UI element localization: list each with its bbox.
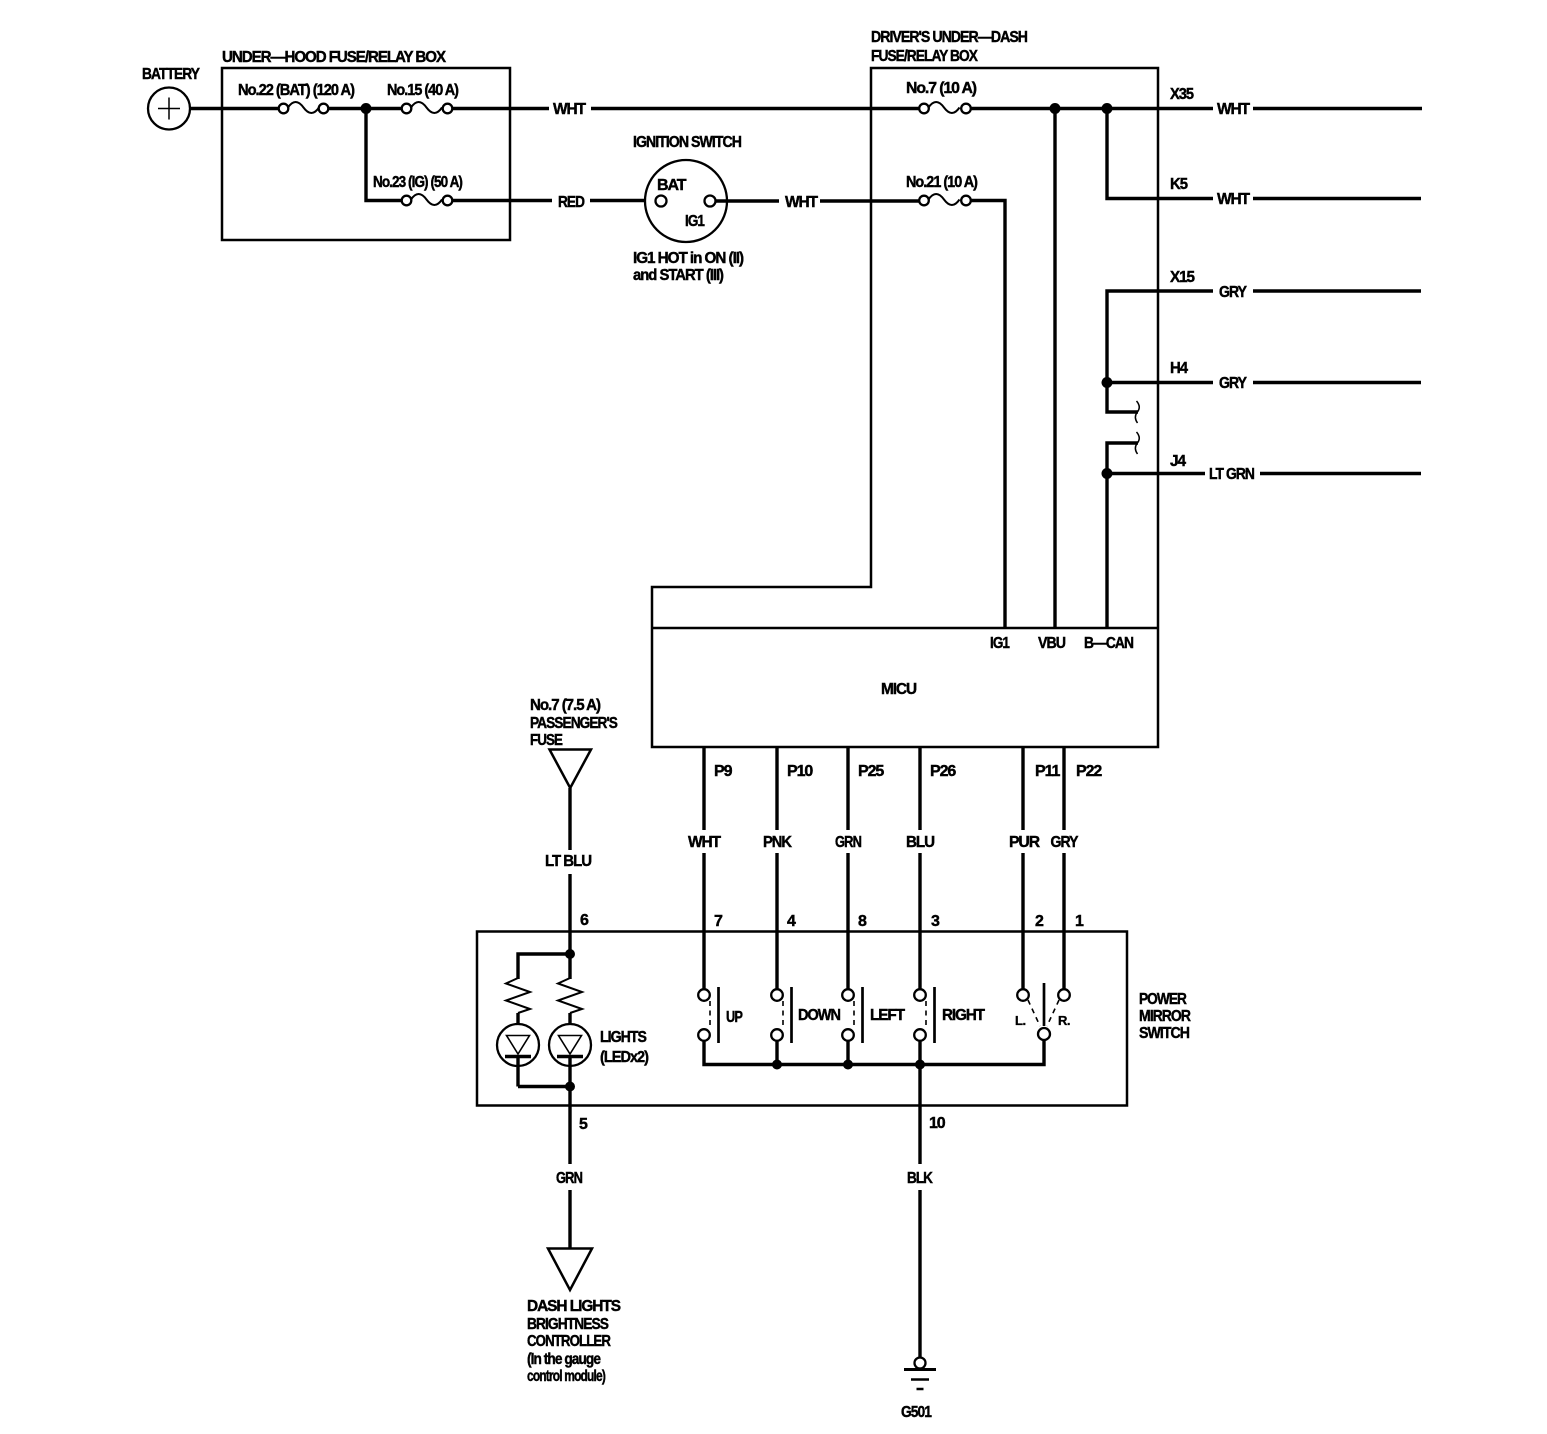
wire K5 branch (WHT) — [1107, 109, 1421, 209]
wire pin 5 to dash lights controller (GRN) — [556, 1087, 588, 1249]
svg-text:WHT: WHT — [785, 194, 818, 211]
junction node bus/LEFT — [843, 1060, 853, 1070]
svg-text:10: 10 — [929, 1115, 946, 1132]
svg-text:LT BLU: LT BLU — [545, 853, 592, 870]
junction node J4 — [1102, 468, 1113, 479]
resistor left — [506, 978, 530, 1013]
svg-text:control module): control module) — [527, 1368, 606, 1385]
svg-text:RED: RED — [558, 194, 584, 211]
svg-text:WHT: WHT — [1217, 191, 1250, 208]
junction node bus/RIGHT — [915, 1060, 925, 1070]
svg-text:IG1: IG1 — [990, 635, 1010, 652]
svg-text:No.22 (BAT) (120 A): No.22 (BAT) (120 A) — [238, 82, 355, 99]
svg-text:PNK: PNK — [763, 834, 792, 851]
svg-text:LIGHTS: LIGHTS — [600, 1029, 647, 1046]
wire DOWN bottom to bus — [775, 1041, 778, 1065]
pin 4 wire — [777, 913, 796, 989]
wire fuse21 to MICU IG1 — [971, 201, 1006, 629]
svg-text:4: 4 — [787, 913, 796, 930]
in-line connector stub lower — [1107, 432, 1139, 474]
wire J4 branch (LT GRN) — [1107, 453, 1421, 483]
switch UP — [698, 987, 743, 1043]
svg-text:WHT: WHT — [688, 834, 721, 851]
svg-text:WHT: WHT — [1217, 101, 1250, 118]
dash lights brightness controller arrow — [527, 1249, 621, 1386]
power mirror switch box — [477, 932, 1191, 1106]
MICU pin P22 wire (GRY) — [1051, 747, 1103, 931]
fuse No.21 (10 A) — [906, 174, 978, 205]
svg-text:IG1: IG1 — [685, 213, 705, 230]
MICU pin P9 wire (WHT) — [688, 747, 733, 931]
svg-text:(In the gauge: (In the gauge — [527, 1351, 601, 1368]
svg-text:J4: J4 — [1170, 453, 1186, 470]
svg-text:PASSENGER'S: PASSENGER'S — [530, 715, 618, 732]
switch DOWN — [771, 987, 840, 1043]
svg-text:UNDER—HOOD FUSE/RELAY BOX: UNDER—HOOD FUSE/RELAY BOX — [222, 49, 446, 66]
fuse No.15 (40 A) — [387, 82, 459, 113]
fuse No.7 (10 A) — [906, 80, 977, 113]
svg-text:LT GRN: LT GRN — [1209, 466, 1254, 483]
LED right — [549, 1013, 591, 1087]
wire RIGHT bottom to bus — [918, 1041, 921, 1065]
junction node VBU tap — [1050, 103, 1061, 114]
svg-text:No.7 (10 A): No.7 (10 A) — [906, 80, 977, 97]
svg-text:H4: H4 — [1170, 360, 1188, 377]
svg-text:(LEDx2): (LEDx2) — [600, 1049, 649, 1066]
svg-text:GRY: GRY — [1219, 284, 1247, 301]
MICU pin P26 wire (BLU) — [906, 747, 956, 931]
svg-text:RIGHT: RIGHT — [942, 1007, 985, 1024]
svg-text:1: 1 — [1075, 913, 1084, 930]
svg-text:DOWN: DOWN — [798, 1007, 840, 1024]
wire LEFT bottom to bus — [846, 1041, 849, 1065]
wire battery to under-hood box — [190, 107, 280, 110]
svg-text:R.: R. — [1058, 1013, 1070, 1028]
wire LED bottoms to node 5 — [518, 1085, 570, 1088]
svg-text:PUR: PUR — [1009, 834, 1041, 851]
in-line connector stub upper — [1107, 383, 1139, 424]
svg-text:6: 6 — [580, 912, 589, 929]
svg-text:WHT: WHT — [553, 101, 586, 118]
wire B-CAN down to MICU — [1105, 474, 1108, 629]
svg-text:POWER: POWER — [1139, 991, 1187, 1008]
wire fuse22 to junction — [328, 107, 366, 110]
svg-text:FUSE/RELAY BOX: FUSE/RELAY BOX — [871, 48, 978, 65]
wire passenger fuse to switch pin 6 (LT BLU) — [545, 788, 592, 931]
svg-text:GRN: GRN — [556, 1170, 582, 1187]
pin 8 wire — [848, 913, 867, 989]
svg-text:G501: G501 — [901, 1404, 932, 1421]
MICU — [652, 628, 1158, 698]
svg-text:DRIVER'S UNDER—DASH: DRIVER'S UNDER—DASH — [871, 29, 1027, 46]
svg-text:No.15 (40 A): No.15 (40 A) — [387, 82, 459, 99]
MICU pin P10 wire (PNK) — [763, 747, 813, 931]
pin 7 wire — [704, 913, 723, 989]
svg-text:No.23 (IG) (50 A): No.23 (IG) (50 A) — [373, 174, 463, 191]
battery — [142, 66, 200, 130]
svg-text:P11: P11 — [1035, 763, 1060, 780]
junction node above pin 5 — [565, 1082, 575, 1092]
ground G501 — [901, 1358, 936, 1422]
wire pin 10 to ground (BLK) — [907, 1065, 946, 1358]
wire H4 branch (GRY) — [1107, 360, 1421, 392]
svg-text:DASH LIGHTS: DASH LIGHTS — [527, 1298, 621, 1315]
svg-text:GRY: GRY — [1051, 834, 1079, 851]
svg-text:FUSE: FUSE — [530, 732, 563, 749]
fuse No.22 (BAT) (120 A) — [238, 82, 355, 113]
svg-text:LEFT: LEFT — [870, 1007, 905, 1024]
svg-text:P10: P10 — [787, 763, 813, 780]
svg-text:X15: X15 — [1170, 269, 1195, 286]
ignition switch — [633, 134, 744, 284]
svg-text:No.21 (10 A): No.21 (10 A) — [906, 174, 978, 191]
wire fuse7 to X35 (WHT) — [971, 86, 1423, 118]
switch RIGHT — [914, 987, 985, 1043]
resistor right — [558, 978, 582, 1013]
switch LEFT — [842, 987, 905, 1043]
wire fuse23 to ignition switch (RED) — [452, 194, 656, 211]
wire junction down to fuse23 — [366, 109, 402, 201]
svg-text:P26: P26 — [930, 763, 956, 780]
svg-text:L.: L. — [1015, 1013, 1026, 1028]
node pin6 inside switch — [518, 931, 575, 979]
svg-text:K5: K5 — [1170, 176, 1188, 193]
svg-text:3: 3 — [931, 913, 940, 930]
svg-text:No.7 (7.5 A): No.7 (7.5 A) — [530, 697, 601, 714]
pin 3 wire — [920, 913, 940, 989]
switch L/R selector — [1015, 983, 1070, 1040]
pin 1 wire — [1064, 913, 1084, 989]
junction node H4 — [1102, 377, 1113, 388]
svg-text:7: 7 — [714, 913, 723, 930]
svg-text:SWITCH: SWITCH — [1139, 1025, 1189, 1042]
svg-text:P22: P22 — [1076, 763, 1102, 780]
svg-text:BLK: BLK — [907, 1170, 933, 1187]
fuse No.23 (IG) (50 A) — [373, 174, 463, 205]
wire fuse15 to under-dash box (WHT) — [452, 101, 920, 118]
driver's under-dash fuse/relay box — [652, 29, 1158, 747]
svg-text:X35: X35 — [1170, 86, 1194, 103]
LED left — [497, 1013, 539, 1087]
svg-text:CONTROLLER: CONTROLLER — [527, 1333, 611, 1350]
svg-text:8: 8 — [858, 913, 867, 930]
LIGHTS (LEDx2) label — [600, 1029, 649, 1066]
switch common bus wire — [704, 1040, 1044, 1065]
passenger's fuse No.7 (7.5 A) arrow — [530, 697, 618, 788]
svg-text:GRN: GRN — [835, 834, 861, 851]
wire ignition IG1 to fuse21 (WHT) — [716, 194, 920, 211]
svg-text:P25: P25 — [858, 763, 884, 780]
svg-text:IG1 HOT in ON (II): IG1 HOT in ON (II) — [633, 250, 744, 267]
pin 2 wire — [1023, 913, 1044, 989]
junction node K5 tap — [1102, 103, 1113, 114]
svg-text:and START (III): and START (III) — [633, 267, 724, 284]
MICU pin P11 wire (PUR) — [1009, 747, 1060, 931]
svg-text:MIRROR: MIRROR — [1139, 1008, 1191, 1025]
svg-text:VBU: VBU — [1038, 635, 1065, 652]
svg-text:GRY: GRY — [1219, 375, 1247, 392]
svg-text:MICU: MICU — [881, 681, 917, 698]
under-hood fuse/relay box — [222, 49, 510, 240]
svg-text:B—CAN: B—CAN — [1084, 635, 1133, 652]
svg-text:2: 2 — [1035, 913, 1044, 930]
svg-text:BLU: BLU — [906, 834, 935, 851]
svg-text:UP: UP — [726, 1009, 743, 1026]
svg-text:BRIGHTNESS: BRIGHTNESS — [527, 1316, 609, 1333]
junction node (fuse22/fuse15/fuse23) — [361, 103, 372, 114]
svg-text:5: 5 — [579, 1116, 588, 1133]
svg-text:IGNITION SWITCH: IGNITION SWITCH — [633, 134, 741, 151]
wire VBU down to MICU — [1053, 109, 1056, 629]
svg-text:P9: P9 — [714, 763, 733, 780]
MICU pin P25 wire (GRN) — [835, 747, 884, 931]
wire junction to fuse15 — [366, 107, 402, 110]
svg-text:BATTERY: BATTERY — [142, 66, 200, 83]
wire X15 branch (GRY) — [1107, 269, 1421, 383]
svg-text:BAT: BAT — [657, 177, 687, 194]
junction node bus/DOWN — [772, 1060, 782, 1070]
